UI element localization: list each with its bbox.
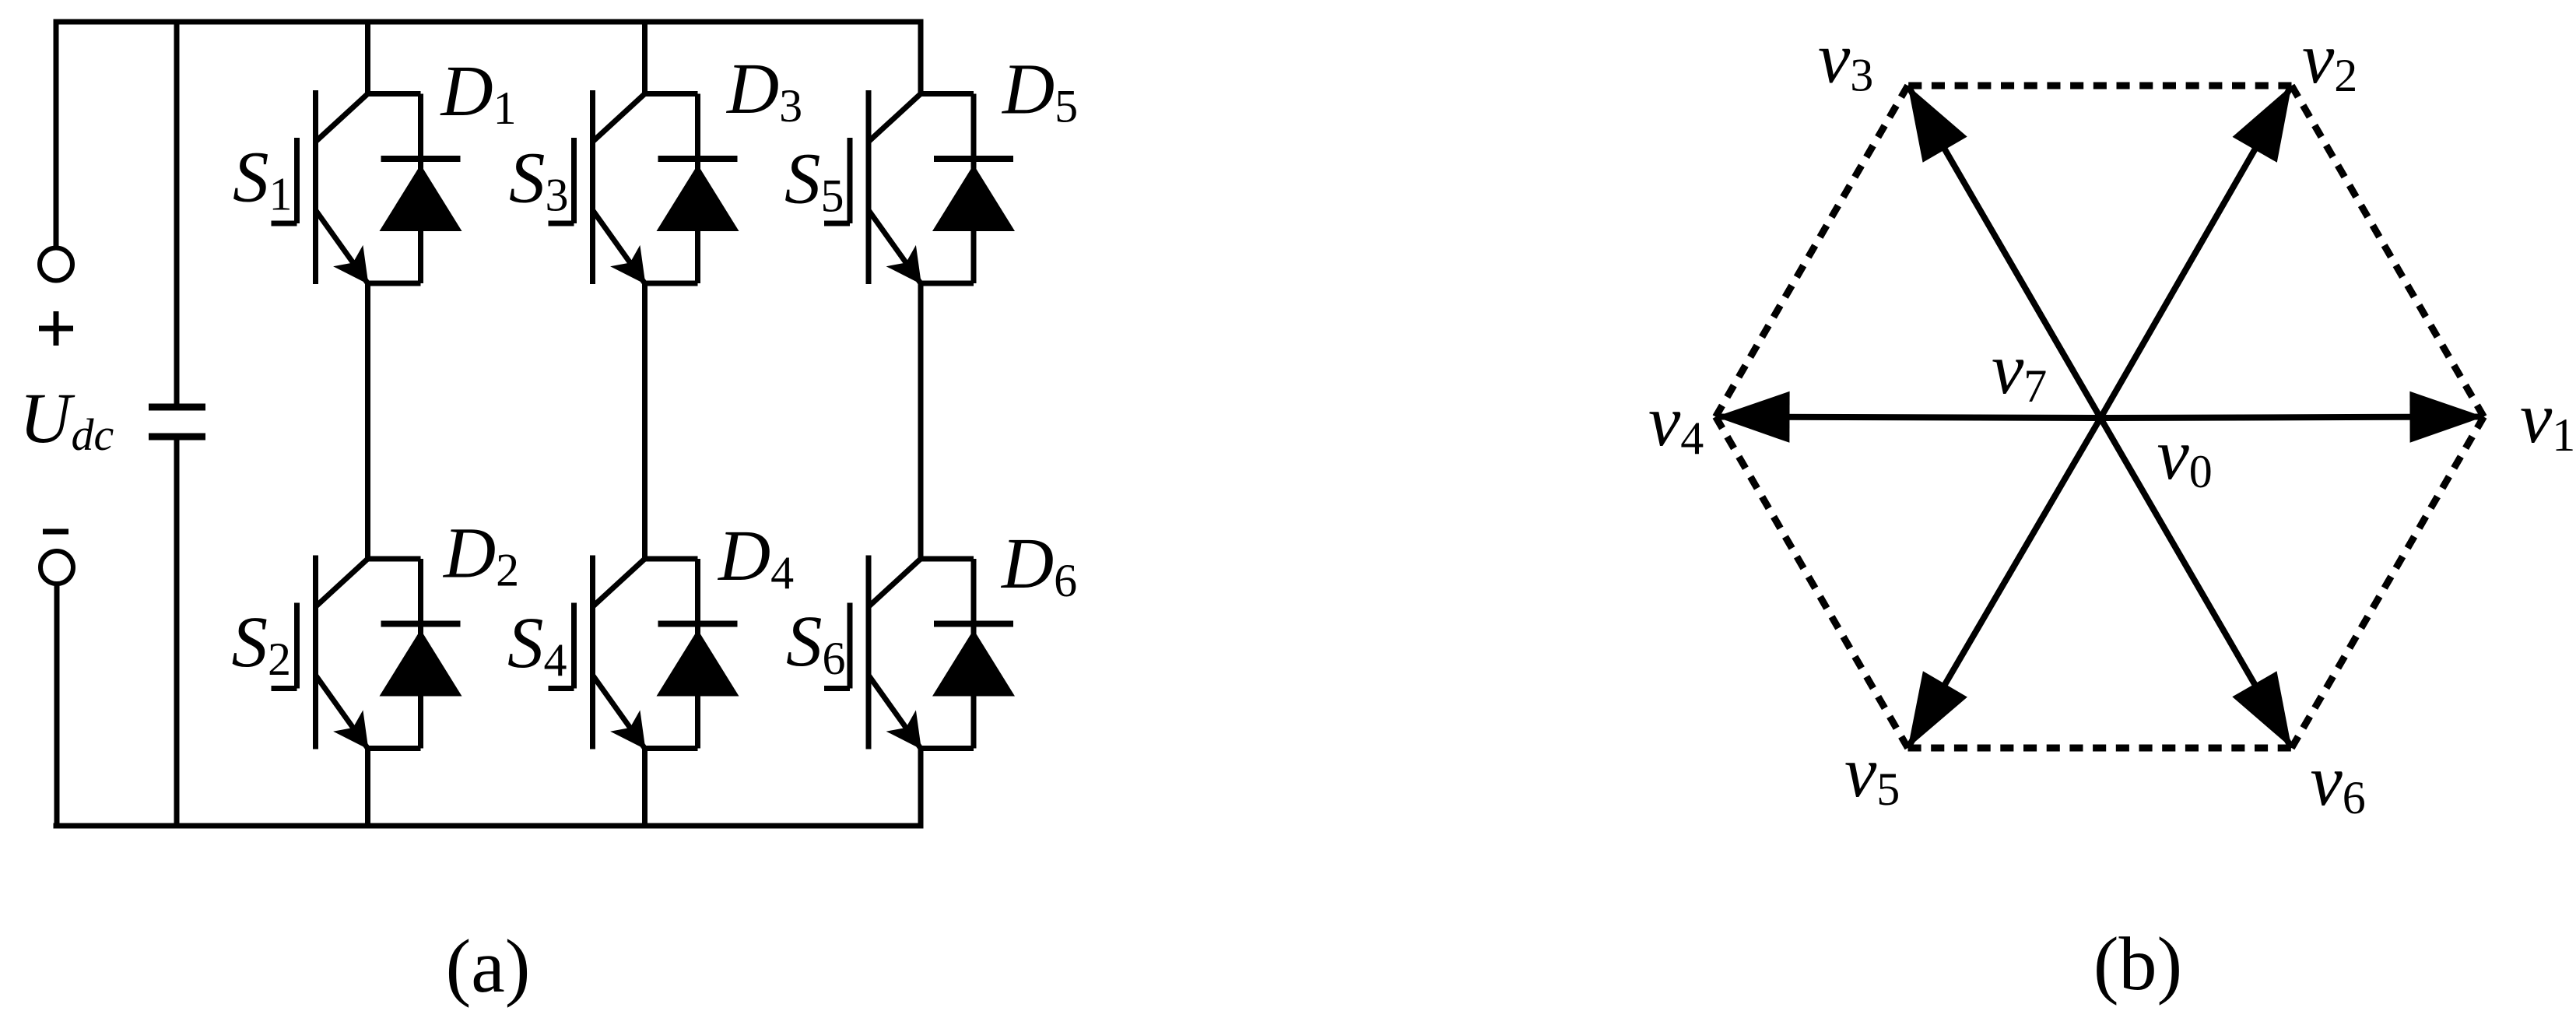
hexagon dashed edge v4-v5 (1716, 417, 1908, 749)
svg-text:D1: D1 (440, 51, 517, 134)
svg-text:D5: D5 (1001, 50, 1078, 132)
svg-text:v3: v3 (1818, 19, 1873, 101)
svg-text:v4: v4 (1648, 381, 1704, 464)
diode D5 (921, 91, 974, 97)
wire phase midpoint leg 1 (365, 283, 370, 559)
wire from - terminal to bottom rail (54, 585, 60, 829)
wire from top rail to + terminal (54, 19, 59, 247)
svg-text:D3: D3 (725, 49, 802, 132)
wire from capacitor to bottom rail (174, 437, 180, 826)
hexagon dashed edge v1-v2 (2292, 86, 2484, 417)
vector arrow v1 (2100, 417, 2484, 419)
wire phase midpoint leg 5 (918, 283, 924, 559)
vector arrow v5 (1908, 418, 2101, 748)
hexagon dashed edge v2-v3 (1908, 82, 2292, 90)
svg-text:S6: S6 (786, 602, 846, 684)
igbt S3 (590, 90, 595, 284)
svg-text:(b): (b) (2093, 922, 2182, 1006)
igbt S4 (590, 556, 595, 749)
wire phase midpoint leg 3 (642, 283, 648, 559)
svg-text:D2: D2 (442, 514, 519, 596)
igbt S2 (313, 556, 318, 749)
hexagon dashed edge v6-v1 (2292, 417, 2484, 749)
svg-text:(a): (a) (446, 925, 531, 1009)
diode D6 (921, 556, 974, 562)
svg-text:S2: S2 (232, 602, 292, 685)
svg-text:v7: v7 (1992, 329, 2047, 412)
wire top DC+ rail (54, 19, 924, 25)
vector arrow v6 (2100, 418, 2292, 748)
capacitor C plates (149, 404, 205, 411)
wire leg S2 emitter to bottom rail (365, 749, 370, 827)
igbt S6 (866, 556, 872, 749)
wire from top rail to capacitor (174, 22, 180, 407)
diode D3 (645, 91, 698, 97)
diode D1 (368, 91, 421, 97)
vector arrow v2 (2100, 86, 2292, 418)
wire top rail to leg S1 collector (365, 22, 370, 94)
hexagon dashed edge v5-v6 (1908, 745, 2292, 752)
svg-text:S1: S1 (233, 138, 293, 220)
svg-text:v1: v1 (2520, 378, 2575, 461)
svg-text:S5: S5 (784, 139, 844, 222)
wire top rail to leg S5 collector (918, 22, 924, 94)
svg-text:S3: S3 (509, 139, 569, 221)
igbt S5 (866, 90, 872, 284)
svg-text:Udc: Udc (19, 378, 114, 460)
terminal - circle (40, 551, 73, 584)
vector arrow v4 (1716, 417, 2101, 419)
svg-text:D4: D4 (717, 516, 794, 599)
svg-text:v5: v5 (1844, 732, 1900, 815)
svg-text:S4: S4 (507, 603, 567, 686)
vector arrow v3 (1908, 86, 2101, 418)
wire leg S4 emitter to bottom rail (642, 749, 648, 827)
svg-text:v6: v6 (2311, 741, 2366, 823)
svg-text:D6: D6 (1000, 524, 1077, 606)
wire top rail to leg S3 collector (642, 22, 648, 94)
wire bottom DC- rail (54, 823, 924, 829)
svg-text:v0: v0 (2157, 415, 2213, 497)
igbt S1 (313, 90, 318, 284)
hexagon dashed edge v3-v4 (1716, 86, 1908, 417)
svg-text:v2: v2 (2302, 19, 2357, 101)
label + sign (39, 326, 73, 332)
terminal + circle (40, 248, 72, 281)
label - sign (43, 529, 68, 535)
diode D2 (368, 556, 421, 562)
diode D4 (645, 556, 698, 562)
wire leg S6 emitter to bottom rail (918, 749, 924, 827)
